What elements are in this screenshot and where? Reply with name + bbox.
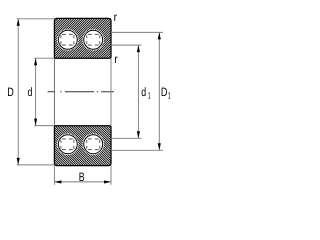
upper half section [12, 18, 153, 60]
dimension line D1 [158, 33, 160, 150]
bearing cross-section drawing (double-row ball bearing) [0, 0, 173, 191]
svg-text:1: 1 [168, 91, 171, 101]
dimension line d [35, 59, 37, 126]
dimension line D [17, 19, 19, 164]
lower half section (mirrored) [12, 125, 153, 167]
D extension lines [17, 18, 55, 20]
svg-text:B: B [79, 170, 85, 184]
dimension line B [55, 181, 111, 183]
d extension lines [34, 57, 54, 59]
svg-text:r: r [114, 10, 117, 24]
svg-text:1: 1 [148, 91, 151, 101]
svg-text:r: r [114, 52, 117, 66]
svg-text:d: d [28, 85, 33, 99]
B extension lines below [53, 165, 55, 185]
D1 extension lines [111, 31, 163, 33]
svg-text:d: d [141, 85, 146, 99]
svg-text:D: D [7, 85, 14, 99]
centerline (axis) [48, 91, 114, 93]
d1 extension lines [111, 44, 142, 46]
svg-text:D: D [161, 85, 168, 99]
dimension line d1 [137, 46, 139, 138]
side face extension lines (through gap) [53, 58, 55, 125]
